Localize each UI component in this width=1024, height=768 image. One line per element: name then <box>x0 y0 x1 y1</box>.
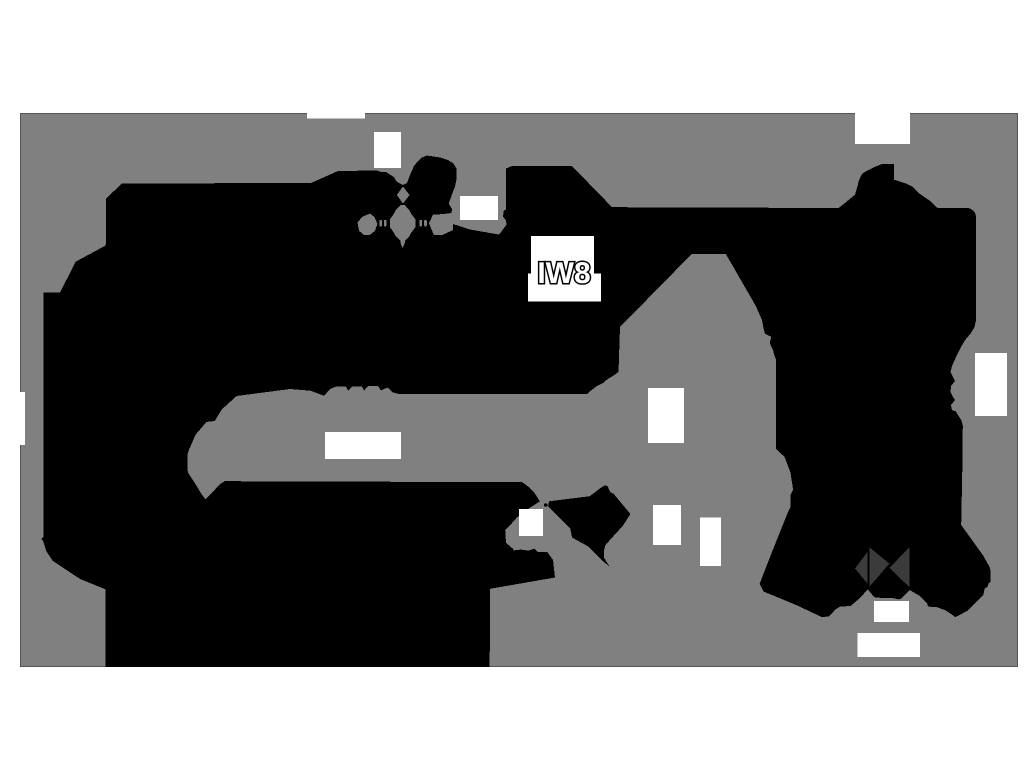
IW8 label box lower part <box>528 274 601 302</box>
dark bowtie right triangle <box>889 547 909 587</box>
white notch on top map edge <box>307 110 365 118</box>
white notch on left map edge <box>14 392 25 445</box>
white label box bottom-right <box>858 633 921 657</box>
map border line <box>21 114 1018 667</box>
left interchange tick bar 2 <box>384 220 387 227</box>
white label box middle <box>325 432 401 459</box>
white label box lower-center 2 <box>700 518 721 567</box>
arrow-shaped black island <box>548 485 630 566</box>
left gray blob <box>358 214 378 235</box>
map gray background <box>20 113 1018 667</box>
left interchange tick bar 1 <box>379 220 382 227</box>
main black landmass <box>41 156 990 668</box>
white label box center <box>648 388 684 443</box>
white label box top-right <box>855 113 910 144</box>
big gray diamond <box>390 205 416 248</box>
svg-text:IW8: IW8 <box>537 257 590 290</box>
dark left arrowhead triangle on mountain <box>855 552 868 584</box>
right interchange tick bar 1 <box>420 220 423 227</box>
white label box upper-left <box>374 132 401 168</box>
white label box under bowtie <box>874 601 909 622</box>
IW8 label box upper part <box>531 236 594 274</box>
right interchange tick bar 2 <box>424 220 427 227</box>
white label box right edge <box>975 353 1007 416</box>
small gray diamond <box>397 187 410 204</box>
white label box mid-top <box>460 196 498 220</box>
tiny black dot in neck channel <box>544 503 548 507</box>
dark bowtie left triangle <box>869 547 889 587</box>
white label box in hole <box>519 509 543 536</box>
white label box lower-center 1 <box>653 505 681 545</box>
